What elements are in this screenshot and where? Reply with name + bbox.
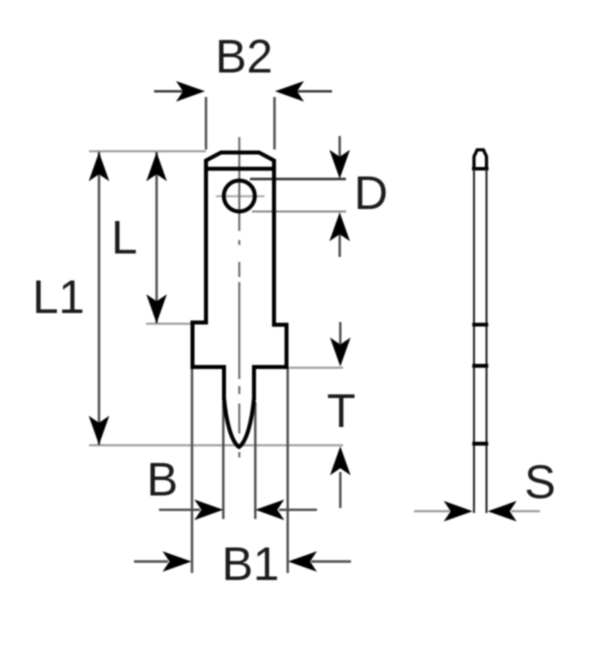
- svg-text:D: D: [354, 166, 388, 219]
- svg-text:L: L: [111, 210, 137, 263]
- svg-text:T: T: [327, 384, 356, 437]
- svg-text:B1: B1: [222, 537, 280, 590]
- svg-text:B: B: [147, 453, 178, 506]
- svg-text:B2: B2: [215, 30, 273, 83]
- svg-text:S: S: [524, 455, 555, 508]
- svg-text:L1: L1: [32, 270, 84, 323]
